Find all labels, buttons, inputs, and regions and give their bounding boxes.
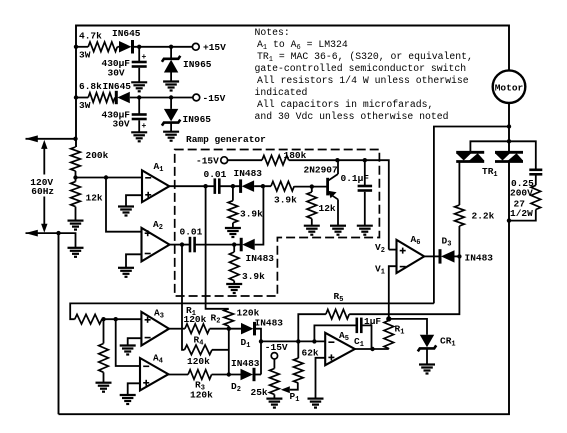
wire Q1 collector up <box>337 160 339 174</box>
ground A5 plus <box>308 398 324 400</box>
wire 3.9k-a to ground <box>232 223 234 228</box>
wire A2 minus to ground <box>126 254 142 267</box>
node 62k R5 branch <box>296 339 300 343</box>
arrow source up <box>41 140 47 149</box>
wire TR1 right bottom border <box>59 163 510 415</box>
svg-text:25k: 25k <box>251 387 268 398</box>
wire A3 output <box>169 328 185 330</box>
svg-text:0.01: 0.01 <box>180 227 203 238</box>
ground rail2 <box>68 247 84 249</box>
capacitor 0.1uF <box>358 185 373 188</box>
node divider <box>73 175 77 179</box>
svg-text:Ramp generator: Ramp generator <box>186 134 266 145</box>
wire C1 up <box>314 325 356 341</box>
wire R1 top to CR1 <box>389 319 427 335</box>
ground zener2 <box>163 131 179 133</box>
resistor R3 120k <box>188 370 212 380</box>
wire A5 minus row <box>261 340 325 342</box>
wire diode to +15V terminal <box>134 46 193 48</box>
zener diode CR1 <box>420 335 434 348</box>
op-amp A2 <box>142 228 170 262</box>
node zener1 branch <box>169 45 173 49</box>
resistor R5 <box>326 309 349 319</box>
ground 3.9k no1 <box>225 227 241 229</box>
arrow P1 wiper <box>281 386 290 393</box>
svg-text:12k: 12k <box>319 203 336 214</box>
wire 180k to V2 corner <box>289 160 389 249</box>
svg-text:-15V: -15V <box>203 93 226 104</box>
diode D2 IN483 <box>241 369 254 380</box>
terminal +15V <box>192 43 199 50</box>
wire P1 wiper <box>290 383 298 390</box>
wire 0.1uF to ground <box>364 192 366 226</box>
ground A2 minus <box>118 267 134 269</box>
wire 3.9k-c stub <box>233 245 235 252</box>
node cap1 branch <box>137 45 141 49</box>
svg-text:gate-controlled semiconductor: gate-controlled semiconductor switch <box>255 63 467 74</box>
resistor input unlabeled <box>75 314 102 324</box>
svg-text:60Hz: 60Hz <box>31 186 54 197</box>
ground 12k ramp <box>304 225 320 227</box>
node cap2 branch <box>137 95 141 99</box>
terminal -15V supply <box>193 94 200 101</box>
resistor 6.8k 3W <box>88 93 115 103</box>
wire A4 output <box>168 374 188 376</box>
capacitor 430uF 30V no1 <box>132 61 147 64</box>
wire cap2 to diode2 <box>195 244 243 246</box>
ground A4 plus <box>120 394 136 396</box>
wire rail2 <box>26 233 76 248</box>
wire motor low to feedback line <box>434 127 509 304</box>
wire snubber cap to res <box>535 176 537 186</box>
node 6.8k row <box>74 95 78 99</box>
svg-text:3W: 3W <box>79 50 91 61</box>
wire 4.7k row <box>76 46 88 48</box>
wire 62k stub <box>297 341 299 358</box>
svg-text:2.2k: 2.2k <box>472 211 495 222</box>
wire cap to diode node <box>219 185 240 187</box>
svg-text:-15V: -15V <box>196 156 219 167</box>
wire R4 to summing <box>212 349 229 351</box>
wire 6.8k row <box>76 97 88 99</box>
svg-text:Motor: Motor <box>495 82 524 93</box>
node zener2 branch <box>169 95 173 99</box>
wire 120V source upper <box>43 149 45 175</box>
wire divider res to ground <box>103 372 105 382</box>
node rail2 <box>56 231 60 235</box>
wire motor to node <box>508 103 510 127</box>
svg-text:3W: 3W <box>79 100 91 111</box>
wire R4 from A2 line <box>182 245 185 350</box>
node A1 input branch <box>104 175 108 179</box>
wire cap2 top <box>138 98 140 114</box>
wire A1 line down to R2 <box>206 186 229 309</box>
svg-text:IN645: IN645 <box>103 81 132 92</box>
diode D1 IN483 <box>241 323 254 335</box>
wire A1 plus to ground <box>126 195 142 206</box>
svg-text:-15V: -15V <box>265 342 288 353</box>
ground cap1 <box>131 81 147 83</box>
zener diode IN965 no1 <box>162 56 180 62</box>
svg-text:and 30 Vdc unless otherwise no: and 30 Vdc unless otherwise noted <box>255 111 449 122</box>
wire R5 to D3 node <box>349 256 459 314</box>
wire D3 to node <box>455 255 460 257</box>
wire 200k to node <box>75 171 77 182</box>
wire -15V to 25k <box>273 359 275 369</box>
svg-text:IN483: IN483 <box>246 253 275 264</box>
svg-text:1µF: 1µF <box>364 316 381 327</box>
wire diode1 to 3.9k <box>254 185 271 187</box>
ground A3 minus <box>120 344 136 346</box>
node A1 output <box>203 184 207 188</box>
wire A2 out to cap2 <box>182 244 190 246</box>
capacitor 0.01 no1 <box>214 178 217 194</box>
wire rail1 <box>26 138 76 140</box>
wire TR1 left bottom to 2.2k <box>458 163 460 206</box>
node C1 output <box>370 347 374 351</box>
ramp generator dashed box <box>175 150 380 297</box>
wire feedback to input resistor <box>70 303 434 319</box>
wire R2 bottom <box>228 326 230 329</box>
thyristor pair TR1 left unit <box>456 151 484 154</box>
zener diode IN965 no2 <box>164 109 178 122</box>
svg-text:200V: 200V <box>510 188 533 199</box>
wire Q1 emitter down <box>337 199 339 225</box>
node snubber return <box>507 218 511 222</box>
wire A5 output row <box>355 348 389 350</box>
wire 2.2k to D3 node <box>458 226 460 256</box>
wire zener2 top <box>170 98 172 109</box>
ground input divider <box>96 382 112 384</box>
node 4.7k row <box>74 45 78 49</box>
wire diode2 to -15V terminal <box>130 97 193 99</box>
wire A4 minus input <box>116 319 140 366</box>
wire 0.1uF top <box>364 160 366 185</box>
resistor 180k <box>262 155 289 165</box>
arrow rail2 left <box>25 230 38 237</box>
ground Q1 emitter <box>330 225 346 227</box>
svg-text:IN483: IN483 <box>231 358 260 369</box>
resistor R2 120k <box>224 309 234 326</box>
resistor 27 ohm <box>531 185 541 209</box>
wire snubber return <box>509 210 536 221</box>
svg-text:12k: 12k <box>86 193 103 204</box>
node R1 top <box>386 316 391 321</box>
wire R1 to D1 node <box>210 328 241 330</box>
capacitor 430uF 30V no2 <box>132 113 147 116</box>
wire input res to A3 plus <box>102 318 141 320</box>
svg-text:3.9k: 3.9k <box>274 195 297 206</box>
ground 25k <box>266 398 282 400</box>
node Q1 collector <box>335 158 339 162</box>
resistor R1 120k <box>185 324 210 334</box>
wire 3.9k to base <box>294 186 312 188</box>
svg-text:30V: 30V <box>108 68 125 79</box>
wire diode2 up to row1 <box>255 186 264 244</box>
wire zener1 to ground <box>170 73 172 82</box>
wire cap2 to ground <box>138 120 140 132</box>
svg-text:200k: 200k <box>86 150 109 161</box>
wire cap 430uF no1 top <box>138 47 140 61</box>
wire A1 output <box>169 185 205 187</box>
wire 3.9k-c to ground <box>233 281 235 284</box>
svg-text:0.01: 0.01 <box>204 169 227 180</box>
arrow source down <box>41 224 47 233</box>
wire R3 to D2 <box>212 374 241 376</box>
op-amp A4 <box>140 358 168 390</box>
wire 3.9k-a stub <box>232 186 234 201</box>
svg-text:indicated: indicated <box>255 87 308 98</box>
svg-text:+15V: +15V <box>203 42 226 53</box>
wire -15V to 180k <box>228 159 262 161</box>
resistor 12k ramp <box>307 192 317 219</box>
svg-text:IN483: IN483 <box>255 318 284 329</box>
terminal -15V ramp <box>221 157 228 164</box>
ground A1 plus <box>118 205 134 207</box>
arrow rail1 left <box>25 135 38 142</box>
wire snubber branch <box>509 141 536 169</box>
svg-text:0.1µF: 0.1µF <box>341 173 370 184</box>
wire A3 minus to ground <box>128 338 142 345</box>
node summing top <box>227 327 231 331</box>
svg-text:IN645: IN645 <box>112 28 141 39</box>
resistor 200k <box>71 147 81 171</box>
wire 12k ramp stub <box>311 187 313 192</box>
wire R1 bottom stub <box>388 348 390 351</box>
wire V1 input <box>389 266 397 319</box>
svg-text:IN483: IN483 <box>465 253 494 264</box>
node A5 input row left <box>259 339 263 343</box>
svg-text:3.9k: 3.9k <box>242 271 265 282</box>
svg-text:120k: 120k <box>184 314 207 325</box>
wire 25k to ground <box>273 394 275 398</box>
wire divider to A1 minus <box>76 177 143 179</box>
diode IN483 no1 <box>239 179 242 193</box>
capacitor 0.01 no2 <box>189 237 192 253</box>
op-amp A6 <box>397 240 425 273</box>
ground 0.1uF <box>357 225 373 227</box>
node diode2 cathode <box>232 242 236 246</box>
node motor low <box>507 124 511 128</box>
terminal -15V P1 <box>271 353 277 359</box>
svg-text:3.9k: 3.9k <box>240 209 263 220</box>
svg-text:Notes:: Notes: <box>255 27 290 38</box>
wire TR1 left branch <box>470 141 509 151</box>
resistor 4.7k 3W <box>88 42 117 52</box>
wire D2 to vertical <box>256 374 262 376</box>
resistor 2.2k <box>455 205 465 226</box>
diode D3 IN483 <box>439 249 442 263</box>
transistor Q1 2N2907 <box>326 178 329 196</box>
wire A6 output <box>424 255 440 257</box>
wire divider res stub <box>103 319 105 343</box>
wire V2 stub <box>389 249 397 251</box>
resistor 3.9k vertical no2 <box>229 252 239 281</box>
node input divider <box>101 317 105 321</box>
node cap 0.1uF <box>363 158 367 162</box>
wire A2 plus input <box>106 178 142 232</box>
ground 12k <box>68 220 84 222</box>
diode IN483 no2 <box>240 238 243 252</box>
ground 3.9k no2 <box>226 283 242 285</box>
wire motor stem to TR1 <box>508 127 510 152</box>
resistor 3.9k vertical no1 <box>228 201 238 223</box>
wire 4.7k to diode <box>117 46 119 48</box>
svg-text:4.7k: 4.7k <box>79 31 102 42</box>
wire cap1 to ground <box>138 68 140 83</box>
svg-text:30V: 30V <box>113 119 130 130</box>
svg-text:IN483: IN483 <box>234 168 263 179</box>
node D3 anode <box>457 254 461 258</box>
potentiometer 25k P1 body <box>270 369 280 395</box>
op-amp A3 <box>141 312 169 346</box>
node diode1 cathode <box>231 184 235 188</box>
wire top border and left border <box>76 26 509 148</box>
svg-text:IN965: IN965 <box>183 59 212 70</box>
resistor R4 120k <box>185 345 213 355</box>
resistor 62k <box>294 358 304 383</box>
thyristor pair TR1 right unit <box>495 151 523 154</box>
svg-text:+: + <box>142 53 147 62</box>
ground cap2 <box>131 131 147 133</box>
op-amp A1 <box>142 170 169 202</box>
diode IN645 positive rail <box>119 41 132 53</box>
svg-text:All capacitors in microfarads,: All capacitors in microfarads, <box>257 99 433 110</box>
ground zener1 <box>163 80 179 82</box>
svg-text:120k: 120k <box>187 356 210 367</box>
svg-text:2N2907: 2N2907 <box>304 165 339 176</box>
diode IN645 negative rail <box>115 91 118 104</box>
svg-text:62k: 62k <box>302 348 319 359</box>
wire A1 out to cap 0.01 no1 <box>206 185 214 187</box>
node diode1 anode <box>261 184 265 188</box>
svg-text:120k: 120k <box>190 390 213 401</box>
ground CR1 <box>419 363 435 365</box>
wire A4 plus to ground <box>128 383 140 395</box>
resistor R1 feedback <box>384 321 394 349</box>
resistor 3.9k horizontal <box>271 181 294 191</box>
node A2 output <box>180 242 184 246</box>
wire left border lower <box>58 233 60 414</box>
wire A5 plus to ground <box>316 358 326 399</box>
resistor input divider <box>99 344 109 373</box>
svg-text:All resistors 1/4 W unless oth: All resistors 1/4 W unless otherwise <box>257 75 469 86</box>
wire R5 up and over <box>298 314 326 341</box>
svg-text:+: + <box>142 122 147 131</box>
wire A2 output <box>170 244 183 246</box>
wire 12k ramp to ground <box>311 219 313 226</box>
wire summing vertical <box>228 329 230 375</box>
wire zener1 top <box>170 47 172 59</box>
node summing bottom <box>227 372 231 376</box>
svg-text:6.8k: 6.8k <box>79 81 102 92</box>
wire C1 right <box>362 325 372 349</box>
wire 120V source lower <box>43 197 45 225</box>
node TR1 top <box>507 139 511 143</box>
capacitor C1 1uF <box>355 318 358 334</box>
resistor 12k <box>71 182 81 207</box>
wire 12k to ground <box>75 207 77 221</box>
svg-text:1/2W: 1/2W <box>510 208 533 219</box>
wire zener2 to ground <box>170 123 172 131</box>
op-amp A5 <box>325 333 355 365</box>
wire CR1 to ground <box>426 350 428 365</box>
svg-text:IN965: IN965 <box>183 114 212 125</box>
node Q1 base <box>310 184 314 188</box>
node C1 branch <box>312 339 316 343</box>
node A4 branch <box>114 317 118 321</box>
node rail1 <box>73 137 77 141</box>
wire D1 to vertical <box>256 329 261 375</box>
capacitor 0.25 200V <box>529 169 542 172</box>
motor M1 <box>493 70 526 103</box>
